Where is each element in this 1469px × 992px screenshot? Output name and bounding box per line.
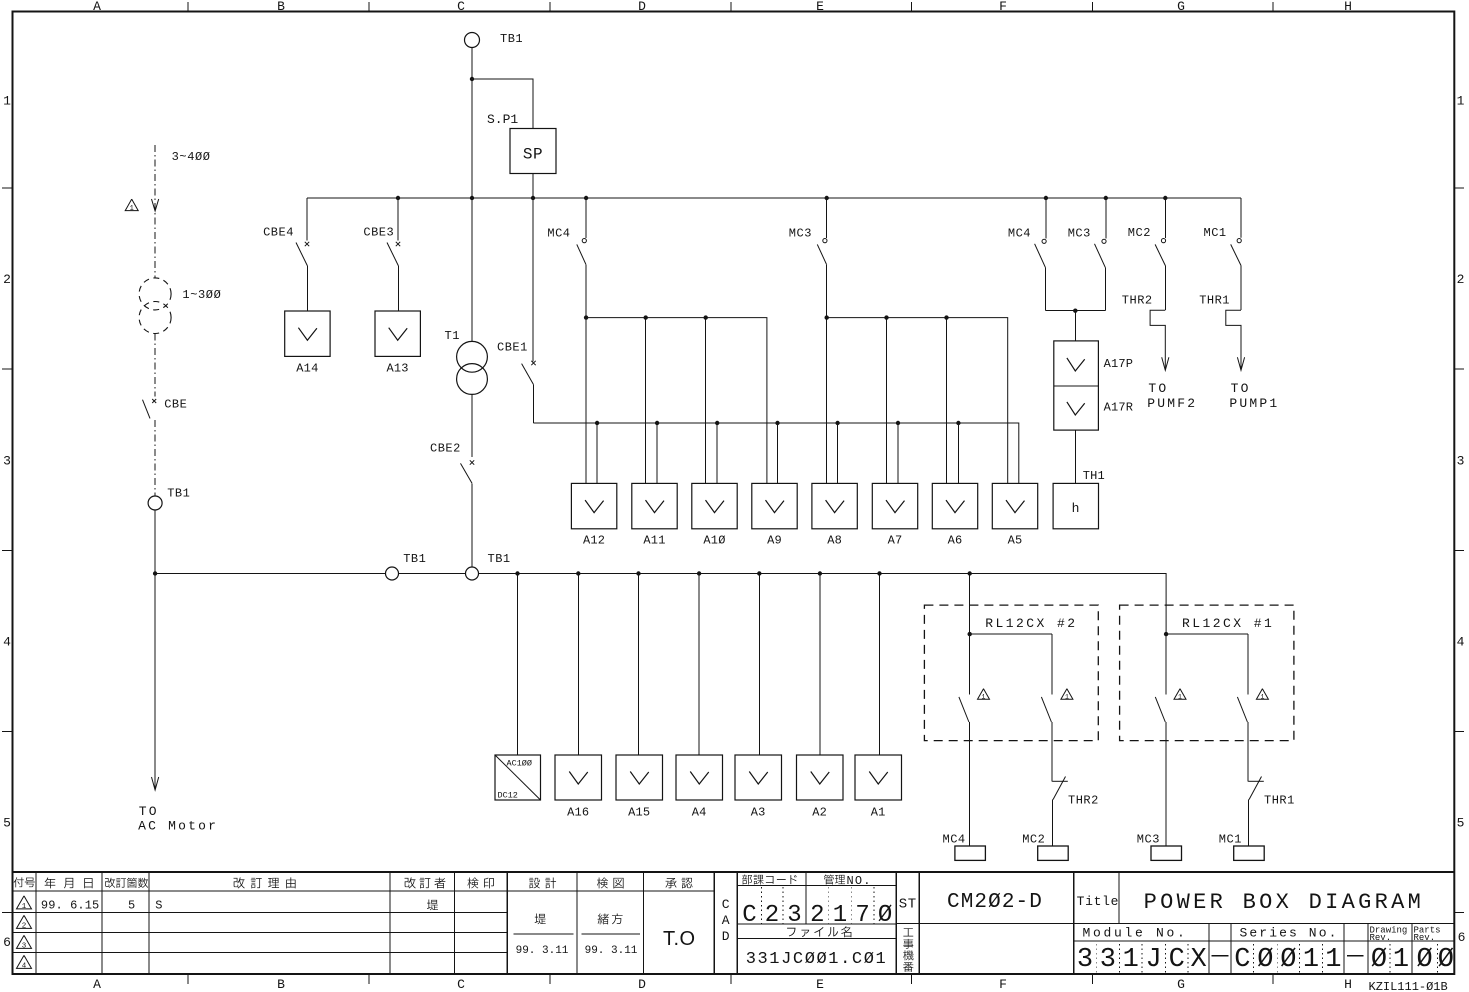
arrowhead on incoming line <box>152 199 159 211</box>
svg-text:MC3: MC3 <box>1137 833 1160 847</box>
svg-text:1: 1 <box>1303 945 1319 975</box>
svg-text:C: C <box>457 0 465 14</box>
svg-text:4: 4 <box>1457 635 1465 650</box>
svg-text:A17P: A17P <box>1104 357 1134 371</box>
svg-text:T.O: T.O <box>663 928 696 950</box>
svg-text:5: 5 <box>128 899 135 913</box>
svg-text:1: 1 <box>1457 94 1465 109</box>
svg-text:3: 3 <box>1100 945 1116 975</box>
wire SP to bus <box>532 174 534 199</box>
svg-text:1: 1 <box>1123 945 1139 975</box>
terminal TB1 (bus 2) <box>466 567 479 580</box>
revision table verticals <box>35 872 37 974</box>
warning triangle 1 (RL1 right) <box>1256 689 1268 700</box>
svg-text:1: 1 <box>1325 945 1341 975</box>
svg-text:4: 4 <box>22 962 27 970</box>
svg-text:A12: A12 <box>583 534 605 548</box>
svg-text:CBE2: CBE2 <box>430 442 461 456</box>
svg-text:A11: A11 <box>643 534 665 548</box>
svg-text:H: H <box>1344 977 1352 992</box>
wire to SP box <box>472 79 533 129</box>
svg-text:THR2: THR2 <box>1068 794 1099 808</box>
warning triangle 1 (RL1 left) <box>1174 689 1186 700</box>
svg-text:D: D <box>722 929 730 944</box>
RL12CX#1 internal wires <box>1164 632 1168 636</box>
svg-text:3~4ØØ: 3~4ØØ <box>172 150 211 164</box>
title block frame <box>13 871 1455 873</box>
arrester box A7 <box>872 483 917 528</box>
svg-text:RL12CX #2: RL12CX #2 <box>985 616 1077 631</box>
svg-text:THR1: THR1 <box>1264 794 1295 808</box>
svg-text:Ø: Ø <box>1438 945 1454 975</box>
svg-text:H: H <box>1344 0 1352 14</box>
wire incoming dash-dot upper <box>154 145 156 278</box>
main vertical wire from TB1 <box>471 48 473 342</box>
wire MC3 feed to A8 <box>826 318 828 484</box>
disconnect switch CBE <box>152 399 156 403</box>
svg-text:99. 3.11: 99. 3.11 <box>516 945 569 957</box>
warning triangle 1 (RL2 right) <box>1061 689 1073 700</box>
svg-text:ST: ST <box>899 897 917 913</box>
svg-text:NO.: NO. <box>847 874 872 888</box>
svg-text:F: F <box>999 977 1007 992</box>
svg-text:G: G <box>1177 977 1185 992</box>
arrester box A13 <box>375 311 420 356</box>
svg-text:AC1ØØ: AC1ØØ <box>507 759 533 769</box>
file name header <box>787 926 851 937</box>
svg-text:3: 3 <box>787 902 801 929</box>
svg-text:2: 2 <box>810 902 824 929</box>
svg-text:A: A <box>722 913 730 928</box>
svg-text:Rev.: Rev. <box>1370 933 1392 943</box>
svg-text:1: 1 <box>22 903 27 911</box>
ST / construction no column <box>918 872 920 974</box>
svg-text:S: S <box>155 899 162 913</box>
svg-text:MC4: MC4 <box>943 833 966 847</box>
svg-text:B: B <box>277 0 285 14</box>
model CM202-D <box>1073 872 1075 974</box>
svg-text:AC Motor: AC Motor <box>138 819 218 834</box>
svg-text:A2: A2 <box>812 806 827 820</box>
feed bus from MC3 <box>827 318 1008 484</box>
svg-text:TB1: TB1 <box>167 486 190 500</box>
svg-text:1: 1 <box>1178 693 1182 700</box>
arrester box A14 <box>285 311 330 356</box>
svg-text:Ø: Ø <box>878 902 892 929</box>
arrester box A11 <box>632 483 677 528</box>
svg-text:POWER BOX DIAGRAM: POWER BOX DIAGRAM <box>1144 890 1425 915</box>
svg-text:G: G <box>1177 0 1185 14</box>
arrester box A6 <box>932 483 977 528</box>
revision rows 2-4 triangles <box>17 915 32 928</box>
svg-text:THR2: THR2 <box>1122 294 1153 308</box>
svg-text:Ø: Ø <box>1371 945 1387 975</box>
svg-text:PUMF2: PUMF2 <box>1147 396 1197 411</box>
svg-text:S.P1: S.P1 <box>487 112 518 127</box>
svg-text:DC12: DC12 <box>498 791 518 801</box>
svg-text:1: 1 <box>3 94 11 109</box>
svg-text:A17R: A17R <box>1104 401 1134 415</box>
svg-text:Rev.: Rev. <box>1414 933 1436 943</box>
svg-text:4: 4 <box>3 635 11 650</box>
svg-text:2: 2 <box>3 272 11 287</box>
svg-text:A3: A3 <box>751 806 766 820</box>
svg-text:A1: A1 <box>871 806 886 820</box>
relay unit RL12CX #1 (dashed box) <box>1120 605 1294 741</box>
svg-text:1: 1 <box>130 205 134 213</box>
RL12CX#2 internal wires <box>969 574 971 695</box>
svg-text:A13: A13 <box>386 362 408 376</box>
svg-text:KZIL111-Ø1B: KZIL111-Ø1B <box>1369 980 1448 992</box>
wire drops to bottom boxes <box>517 574 519 756</box>
arrester box A9 <box>752 483 797 528</box>
wire MC4 feed to A12 <box>585 318 587 484</box>
svg-text:CM2Ø2-D: CM2Ø2-D <box>947 891 1043 914</box>
svg-text:6: 6 <box>1458 930 1466 945</box>
svg-text:5: 5 <box>1457 816 1465 831</box>
arrester box A8 <box>812 483 857 528</box>
svg-text:CBE: CBE <box>164 398 187 412</box>
revision table header line <box>13 890 715 892</box>
module/series verticals <box>1208 923 1210 974</box>
wire T1 to CBE2 <box>471 394 473 457</box>
transformer 1~300 (dashed) <box>139 278 171 310</box>
contact blades RL2 <box>959 697 969 722</box>
svg-text:6: 6 <box>3 935 11 950</box>
svg-text:1: 1 <box>1065 693 1069 700</box>
svg-text:J: J <box>1145 945 1161 975</box>
svg-text:2: 2 <box>1457 272 1465 287</box>
wire TB1 to bottom bus <box>154 510 156 574</box>
svg-text:RL12CX #1: RL12CX #1 <box>1182 616 1274 631</box>
svg-text:B: B <box>277 977 285 992</box>
svg-text:MC1: MC1 <box>1204 226 1227 240</box>
contact blades RL1 <box>1155 697 1165 722</box>
relay unit RL12CX #2 (dashed box) <box>924 605 1098 741</box>
svg-text:Ø: Ø <box>1257 945 1273 975</box>
svg-text:MC1: MC1 <box>1219 833 1242 847</box>
warning triangle 1 (incoming) <box>125 199 138 211</box>
bottom bus <box>155 573 385 575</box>
svg-text:h: h <box>1072 501 1080 516</box>
svg-text:CBE1: CBE1 <box>497 341 528 355</box>
svg-text:C: C <box>722 897 730 912</box>
svg-text:Module No.: Module No. <box>1082 926 1187 941</box>
wire dash-dot below CBE <box>154 420 156 496</box>
svg-text:PUMP1: PUMP1 <box>1229 396 1279 411</box>
svg-text:Title: Title <box>1077 894 1120 909</box>
svg-text:1: 1 <box>982 693 986 700</box>
svg-text:C: C <box>1169 945 1185 975</box>
arrester boxes A16 A15 A4 A3 A2 A1 <box>555 755 602 800</box>
svg-text:A6: A6 <box>948 534 963 548</box>
svg-text:E: E <box>816 977 824 992</box>
Title cell <box>1118 872 1120 923</box>
svg-text:TB1: TB1 <box>488 552 511 566</box>
revision table row lines <box>13 912 508 914</box>
svg-text:1~3ØØ: 1~3ØØ <box>182 288 221 302</box>
svg-text:1: 1 <box>833 902 847 929</box>
svg-text:TH1: TH1 <box>1083 469 1105 483</box>
terminal TB1 (left) <box>148 496 162 510</box>
svg-text:MC3: MC3 <box>1068 227 1091 241</box>
wire MC4 line to terminal <box>969 722 971 846</box>
svg-text:1: 1 <box>1260 693 1264 700</box>
svg-text:TB1: TB1 <box>403 552 426 566</box>
feed bus from MC4 <box>586 318 767 484</box>
dept code / control no. section <box>737 885 896 887</box>
svg-text:3: 3 <box>1457 454 1465 469</box>
thermal overload THR2 (lower) <box>1051 722 1053 781</box>
svg-text:THR1: THR1 <box>1199 294 1230 308</box>
svg-text:C: C <box>457 977 465 992</box>
svg-text:Ø: Ø <box>1416 945 1432 975</box>
svg-text:3: 3 <box>1077 945 1093 975</box>
svg-text:A9: A9 <box>767 534 782 548</box>
svg-text:Series No.: Series No. <box>1239 926 1338 941</box>
terminal TB1 (top) <box>465 33 480 48</box>
svg-text:SP: SP <box>523 146 543 164</box>
svg-text:MC4: MC4 <box>547 227 570 241</box>
designer column <box>535 913 546 924</box>
svg-text:TO: TO <box>139 804 159 819</box>
svg-text:C: C <box>1234 945 1250 975</box>
svg-text:TB1: TB1 <box>500 32 523 46</box>
svg-text:TO: TO <box>1231 381 1251 396</box>
svg-text:7: 7 <box>855 902 869 929</box>
svg-text:A8: A8 <box>827 534 842 548</box>
svg-text:E: E <box>816 0 824 14</box>
svg-text:CBE4: CBE4 <box>263 226 294 240</box>
svg-text:T1: T1 <box>445 329 460 343</box>
revision row 1 <box>17 896 32 909</box>
svg-text:2: 2 <box>765 902 779 929</box>
svg-text:5: 5 <box>3 816 11 831</box>
svg-text:A16: A16 <box>567 806 589 820</box>
wire MC3 line to terminal <box>1165 722 1167 846</box>
svg-text:3: 3 <box>22 942 27 950</box>
wire dash-dot below transformer <box>154 334 156 397</box>
svg-text:CBE3: CBE3 <box>363 226 394 240</box>
svg-text:99. 3.11: 99. 3.11 <box>585 945 638 957</box>
dash between series and rev <box>1347 955 1364 957</box>
power supply box AC100/DC12 <box>495 755 541 800</box>
wire CBE2 to TB1 bottom <box>471 483 473 567</box>
svg-text:MC3: MC3 <box>789 227 812 241</box>
wire down to AC motor arrow <box>154 574 156 790</box>
arrester box A17R <box>1054 385 1099 387</box>
merge wire MC4/MC3 <box>1045 310 1105 312</box>
svg-text:99. 6.15: 99. 6.15 <box>41 899 99 913</box>
svg-text:TO: TO <box>1148 381 1168 396</box>
svg-text:Ø: Ø <box>1280 945 1296 975</box>
arrester box A5 <box>992 483 1037 528</box>
junction on bottom bus left <box>153 571 157 575</box>
dash between module and series <box>1212 955 1229 957</box>
svg-text:2: 2 <box>22 922 27 930</box>
main divider under title row <box>896 922 1454 924</box>
svg-text:F: F <box>999 0 1007 14</box>
svg-text:A14: A14 <box>296 362 318 376</box>
svg-text:A1Ø: A1Ø <box>703 534 725 548</box>
module/series header line <box>1074 940 1455 942</box>
svg-text:D: D <box>638 0 646 14</box>
svg-text:A: A <box>93 0 101 14</box>
main bus <box>307 197 1241 199</box>
terminal TB1 (bus 1) <box>386 567 399 580</box>
warning triangle 1 (RL2 left) <box>978 689 990 700</box>
arrester box A12 <box>571 483 616 528</box>
wire A17R to TH1 <box>1074 430 1076 483</box>
arrester box A10 <box>692 483 737 528</box>
svg-text:D: D <box>638 977 646 992</box>
svg-text:331JCØØ1.CØ1: 331JCØØ1.CØ1 <box>746 950 888 969</box>
junction to surge protector branch <box>470 77 474 81</box>
svg-text:MC2: MC2 <box>1128 226 1151 240</box>
svg-text:3: 3 <box>3 454 11 469</box>
svg-text:A15: A15 <box>628 806 650 820</box>
svg-text:A: A <box>93 977 101 992</box>
distribution bus from CBE1 <box>533 423 1018 483</box>
svg-text:X: X <box>1190 945 1206 975</box>
svg-text:A5: A5 <box>1008 534 1023 548</box>
revision header kanji <box>14 877 35 887</box>
arrester box A17P <box>1054 341 1099 430</box>
svg-text:MC2: MC2 <box>1022 833 1045 847</box>
svg-text:MC4: MC4 <box>1008 227 1031 241</box>
svg-text:1: 1 <box>1393 945 1409 975</box>
svg-text:C: C <box>742 902 756 929</box>
svg-text:A7: A7 <box>888 534 903 548</box>
svg-text:A4: A4 <box>692 806 707 820</box>
checker column <box>598 913 623 924</box>
thermal overload THR1 (lower) <box>1247 722 1249 781</box>
bottom bus right section <box>479 574 1167 635</box>
